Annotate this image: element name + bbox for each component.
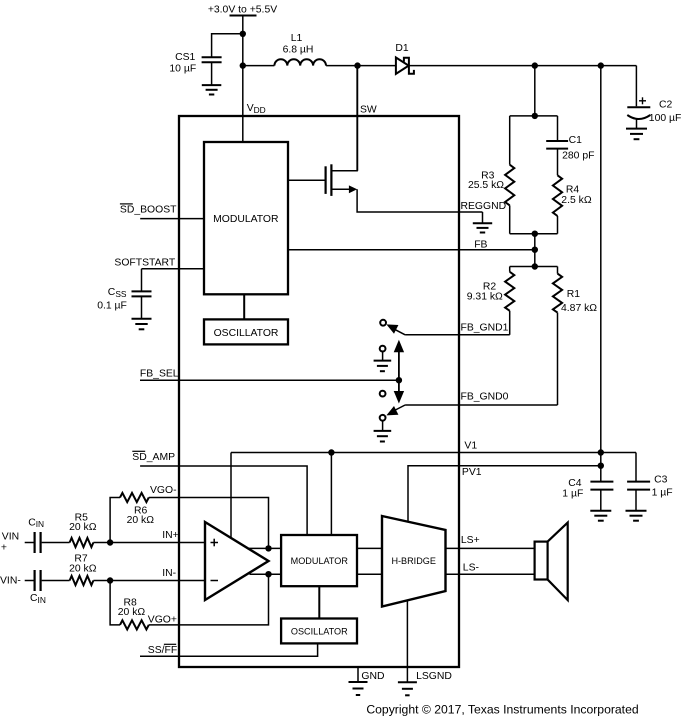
label IN- pin xyxy=(162,568,176,579)
svg-text:20 kΩ: 20 kΩ xyxy=(118,607,146,618)
wire top rail to divider xyxy=(534,66,536,116)
ground below CS1 xyxy=(202,85,222,94)
label R1 xyxy=(567,289,581,300)
wire REGGND ground stub xyxy=(482,212,484,223)
wire FB from modulator to divider xyxy=(288,249,535,251)
label SW pin xyxy=(360,104,377,115)
capacitor C4 plates xyxy=(590,482,613,490)
wire V1 to C3 xyxy=(635,453,637,482)
label R3 xyxy=(481,170,495,181)
switch lever arrow FB_GND1 xyxy=(386,324,398,333)
label VGO- xyxy=(150,485,177,496)
svg-text:20 kΩ: 20 kΩ xyxy=(127,515,155,526)
node junction IN+ xyxy=(107,539,113,545)
ground upper switch contact xyxy=(374,361,392,372)
svg-text:R1: R1 xyxy=(567,289,581,300)
svg-text:20 kΩ: 20 kΩ xyxy=(69,522,97,533)
resistor R6 xyxy=(120,493,149,502)
wire lower grounded contact stub xyxy=(382,421,384,431)
block H-BRIDGE xyxy=(382,516,446,607)
svg-text:IN+: IN+ xyxy=(162,530,178,541)
wire V1 to op-amp xyxy=(230,453,232,539)
svg-text:VGO-: VGO- xyxy=(150,485,177,496)
wire R7 to op-amp IN- xyxy=(93,580,205,582)
overline SD_BOOST xyxy=(120,203,133,205)
svg-text:MODULATOR: MODULATOR xyxy=(213,214,279,225)
power rail bar xyxy=(230,15,257,17)
wire upper grounded contact stub xyxy=(382,352,384,361)
svg-text:25.5 kΩ: 25.5 kΩ xyxy=(468,180,504,191)
svg-text:OSCILLATOR: OSCILLATOR xyxy=(214,328,279,339)
label FB xyxy=(474,240,487,251)
svg-text:LSGND: LSGND xyxy=(416,671,452,682)
wire FB_GND1 xyxy=(405,334,510,336)
wire FB_GND1 lever xyxy=(391,327,406,335)
capacitor CIN bottom plates xyxy=(35,570,41,591)
wire FB_GND0 xyxy=(405,404,557,406)
wire SOFTSTART xyxy=(142,268,205,270)
svg-text:VIN-: VIN- xyxy=(0,576,21,587)
svg-text:V1: V1 xyxy=(464,440,477,451)
wire FB_GND0 lever xyxy=(391,405,406,413)
wire VIN- lead xyxy=(25,580,34,582)
capacitor CIN top plates xyxy=(35,532,41,553)
svg-text:CIN: CIN xyxy=(30,593,46,605)
label SD_AMP xyxy=(132,452,175,463)
wire mosfet source xyxy=(331,188,350,190)
svg-text:SD_BOOST: SD_BOOST xyxy=(120,205,177,216)
wire R4 branch lower xyxy=(557,216,559,234)
node junction output plus xyxy=(265,545,271,551)
svg-text:GND: GND xyxy=(361,671,384,682)
label C3 xyxy=(654,475,668,486)
switch contact circle FB_GND0 open xyxy=(380,391,386,397)
power rail +3.0V to +5.5V label xyxy=(208,4,277,15)
svg-text:SW: SW xyxy=(360,104,377,115)
label C1 value 280 pF xyxy=(562,150,594,161)
label C2 xyxy=(659,100,673,111)
label MODULATOR boost xyxy=(213,214,279,225)
svg-text:1 µF: 1 µF xyxy=(652,488,673,499)
inductor L1 xyxy=(274,59,326,65)
wire VIN+ lead xyxy=(25,542,34,544)
ground lower switch contact xyxy=(374,431,392,442)
node junction R1 R2 top rail xyxy=(532,263,538,269)
transistor mosfet gate bar xyxy=(325,166,327,194)
wire C3 to ground xyxy=(635,490,637,511)
svg-text:L1: L1 xyxy=(291,33,303,44)
node junction at PV1 rail tap xyxy=(598,62,604,68)
wire VGO- left xyxy=(110,498,120,543)
svg-text:C1: C1 xyxy=(569,135,583,146)
wire modulator to H-bridge upper xyxy=(357,547,382,549)
label CS1 value 10 uF xyxy=(169,64,196,75)
IC boundary box xyxy=(179,116,459,667)
wire CS1 to ground xyxy=(211,62,213,85)
svg-text:CSS: CSS xyxy=(108,287,127,299)
svg-text:SS/FF: SS/FF xyxy=(148,645,177,656)
switch selector arrow up xyxy=(394,340,404,381)
wire mosfet source to REGGND xyxy=(357,189,482,212)
label FB_GND1 xyxy=(461,322,509,333)
resistor R1 xyxy=(553,274,562,313)
svg-text:LS+: LS+ xyxy=(461,535,480,546)
label R2 value 9.31 kOhm xyxy=(467,292,503,303)
label R4 xyxy=(566,185,580,196)
capacitor C3 plates xyxy=(627,482,650,490)
label CIN top xyxy=(28,517,44,529)
wire L1 to diode D1 xyxy=(326,65,396,67)
svg-text:SD_AMP: SD_AMP xyxy=(132,452,175,463)
switch contact circle grounded lower xyxy=(380,415,386,421)
label R6 xyxy=(134,505,148,516)
node junction output minus xyxy=(265,571,271,577)
node junction at R3 R4 divider tap xyxy=(532,62,538,68)
label R7 value 20 kOhm xyxy=(69,563,97,574)
resistor R3 xyxy=(505,165,514,206)
wire CIN to R5 xyxy=(42,542,70,544)
svg-text:FB_GND1: FB_GND1 xyxy=(461,322,509,333)
node junction PV1 C4 xyxy=(598,463,604,469)
label SOFTSTART xyxy=(114,257,175,268)
wire R3 branch upper xyxy=(509,116,511,165)
block OSCILLATOR amp xyxy=(281,619,357,644)
label R5 xyxy=(75,512,89,523)
block OSCILLATOR boost xyxy=(204,319,288,344)
svg-text:20 kΩ: 20 kΩ xyxy=(69,563,97,574)
wire modulator to H-bridge lower xyxy=(357,573,382,575)
wire VGO+ left xyxy=(110,581,120,625)
wire R1 stub xyxy=(557,267,559,274)
svg-text:9.31 kΩ: 9.31 kΩ xyxy=(467,292,503,303)
label CSS xyxy=(108,287,127,299)
svg-text:R4: R4 xyxy=(566,185,580,196)
wire LS+ to speaker xyxy=(446,547,535,549)
wire R2 stub xyxy=(509,267,511,272)
wire PV1 rail vertical xyxy=(600,66,602,481)
svg-text:C2: C2 xyxy=(659,100,673,111)
wire V1 xyxy=(231,452,636,454)
node junction at SW tap xyxy=(354,62,360,68)
label C2 value 100 uF xyxy=(649,113,681,124)
label SD_BOOST xyxy=(120,205,177,216)
ground below C2 xyxy=(626,129,647,140)
label L1 xyxy=(291,33,303,44)
node junction FB xyxy=(532,247,538,253)
label REGGND xyxy=(461,201,507,212)
label L1 value 6.8 uH xyxy=(283,44,314,55)
label R4 value 2.5 kOhm xyxy=(561,195,592,206)
diode D1 schottky cathode xyxy=(404,58,414,74)
wire FB_SEL xyxy=(140,379,399,381)
node junction at L1 tap xyxy=(240,62,246,68)
wire divider bottom rail xyxy=(510,233,558,235)
svg-text:1 µF: 1 µF xyxy=(562,489,583,500)
svg-text:CS1: CS1 xyxy=(175,52,195,63)
node junction V1 C4 rail xyxy=(598,449,604,455)
svg-text:CIN: CIN xyxy=(28,517,44,529)
label C4 value 1 uF xyxy=(562,489,583,500)
node junction FB_SEL xyxy=(396,377,402,383)
label SS/FF xyxy=(148,645,177,656)
wire top rail to capacitor C2 xyxy=(635,66,637,107)
label R6 value 20 kOhm xyxy=(127,515,155,526)
resistor R4 xyxy=(553,175,562,216)
wire R3 branch lower xyxy=(509,205,511,233)
capacitor C2 polarized plates xyxy=(627,107,650,119)
wire R1 R2 top rail xyxy=(510,266,558,268)
ground below C3 xyxy=(626,511,647,521)
resistor R2 xyxy=(505,272,514,311)
wire SD_BOOST xyxy=(140,218,204,220)
ground LSGND xyxy=(398,682,417,695)
wire C4 to ground xyxy=(600,490,602,511)
svg-text:6.8 µH: 6.8 µH xyxy=(283,44,314,55)
wire GND stub xyxy=(357,667,359,682)
svg-text:SOFTSTART: SOFTSTART xyxy=(114,257,175,268)
label R8 xyxy=(124,597,138,608)
label VGO+ xyxy=(148,615,177,626)
label FB_SEL xyxy=(140,369,179,380)
label IN+ pin xyxy=(162,530,178,541)
svg-text:100 µF: 100 µF xyxy=(649,113,681,124)
svg-text:Copyright © 2017, Texas Instru: Copyright © 2017, Texas Instruments Inco… xyxy=(366,702,638,716)
wire SW vertical xyxy=(357,66,359,171)
svg-text:C3: C3 xyxy=(654,475,668,486)
label C4 xyxy=(568,478,582,489)
diode D1 triangle xyxy=(396,58,409,74)
node junction at CS1 tap xyxy=(240,31,246,37)
wire D1 cathode to C2 xyxy=(409,65,637,67)
label OSCILLATOR boost xyxy=(214,328,279,339)
svg-text:C4: C4 xyxy=(568,478,582,489)
switch lever arrow FB_GND0 xyxy=(386,406,398,415)
label R7 xyxy=(74,554,88,565)
label R1 value 4.87 kOhm xyxy=(561,303,597,314)
label MODULATOR amp xyxy=(291,556,349,566)
copyright notice xyxy=(366,702,638,716)
block MODULATOR boost xyxy=(204,142,288,294)
wire op-amp output plus xyxy=(247,547,281,549)
wire modulator to mosfet gate xyxy=(288,179,326,181)
wire C2 to ground xyxy=(636,120,638,129)
wire to capacitor CS1 xyxy=(212,34,243,57)
svg-text:VGO+: VGO+ xyxy=(148,615,177,626)
svg-text:VDD: VDD xyxy=(247,103,266,115)
svg-text:0.1 µF: 0.1 µF xyxy=(97,300,127,311)
svg-text:FB_SEL: FB_SEL xyxy=(140,369,179,380)
node junction divider top rail xyxy=(532,113,538,119)
label D1 xyxy=(395,43,409,54)
ground GND xyxy=(349,682,368,695)
wire C1 to R4 xyxy=(557,149,559,176)
node junction IN- xyxy=(107,577,113,583)
wire R1 to FB_GND0 xyxy=(557,313,559,405)
overline SS/FF xyxy=(164,643,176,645)
wire SS/FF xyxy=(140,643,318,656)
svg-text:+: + xyxy=(1,543,7,554)
label OSCILLATOR amp xyxy=(291,626,348,636)
wire softstart to CSS xyxy=(141,269,143,291)
wire from VDD node to inductor L1 xyxy=(243,65,275,67)
speaker horn xyxy=(548,523,568,601)
svg-text:+3.0V to +5.5V: +3.0V to +5.5V xyxy=(208,4,277,15)
ground below C4 xyxy=(590,511,611,521)
overline SD_AMP xyxy=(132,450,145,452)
wire PV1 xyxy=(408,466,601,522)
block MODULATOR amp xyxy=(281,535,357,586)
svg-text:MODULATOR: MODULATOR xyxy=(291,556,349,566)
resistor R7 xyxy=(70,576,94,585)
wire LS- to speaker xyxy=(446,573,535,575)
svg-text:OSCILLATOR: OSCILLATOR xyxy=(291,626,348,636)
wire C1 branch upper xyxy=(557,116,559,140)
capacitor C2 plus sign xyxy=(639,97,646,104)
op-amp minus input sign xyxy=(211,580,219,582)
label LS+ pin xyxy=(461,535,480,546)
wire VGO+ right xyxy=(149,574,269,625)
wire divider top rail xyxy=(510,115,558,117)
wire V1 to modulator xyxy=(330,453,332,536)
label CSS value 0.1 uF xyxy=(97,300,127,311)
svg-text:FB_GND0: FB_GND0 xyxy=(461,392,509,403)
label C1 xyxy=(569,135,583,146)
svg-text:H-BRIDGE: H-BRIDGE xyxy=(391,556,435,566)
svg-text:VIN: VIN xyxy=(2,532,19,543)
label V1 xyxy=(464,440,477,451)
capacitor CSS plates xyxy=(132,291,152,296)
node junction V1 to modulator xyxy=(328,449,334,455)
label LSGND pin xyxy=(416,671,452,682)
op-amp plus input sign xyxy=(211,539,219,547)
capacitor CS1 plates xyxy=(202,57,222,62)
wire CIN to R7 xyxy=(42,580,70,582)
ground below CSS xyxy=(132,319,152,330)
wire modulator amp to oscillator amp xyxy=(318,586,320,618)
speaker body xyxy=(535,542,548,580)
label CIN bottom xyxy=(30,593,46,605)
resistor R8 xyxy=(120,620,149,629)
wire LSGND from H-bridge xyxy=(406,600,408,682)
label R2 xyxy=(483,282,497,293)
svg-text:REGGND: REGGND xyxy=(461,201,507,212)
svg-text:2.5 kΩ: 2.5 kΩ xyxy=(561,195,592,206)
switch contact circle FB_GND1 xyxy=(380,320,386,326)
label R3 value 25.5 kOhm xyxy=(468,180,504,191)
transistor mosfet channel bar xyxy=(330,164,332,196)
label PV1 xyxy=(462,467,482,478)
label VIN- xyxy=(0,576,21,587)
op-amp U1 xyxy=(205,522,269,600)
wire mosfet drain xyxy=(331,66,357,171)
svg-text:4.87 kΩ: 4.87 kΩ xyxy=(561,303,597,314)
label R5 value 20 kOhm xyxy=(69,522,97,533)
switch contact circle grounded upper xyxy=(380,346,386,352)
wire R5 to op-amp IN+ xyxy=(93,542,205,544)
wire divider bottom to FB xyxy=(534,234,536,267)
capacitor C1 plates xyxy=(546,141,568,149)
ground REGGND xyxy=(473,223,492,232)
label H-BRIDGE xyxy=(391,556,435,566)
label GND pin xyxy=(361,671,384,682)
switch selector arrow down xyxy=(394,380,404,403)
node junction divider bottom xyxy=(532,231,538,237)
transistor mosfet source arrow xyxy=(349,185,357,193)
svg-text:280 pF: 280 pF xyxy=(562,150,594,161)
svg-text:PV1: PV1 xyxy=(462,467,482,478)
svg-text:IN-: IN- xyxy=(162,568,176,579)
svg-text:D1: D1 xyxy=(395,43,409,54)
wire R2 to FB_GND1 xyxy=(509,311,511,335)
svg-text:10 µF: 10 µF xyxy=(169,64,196,75)
label C3 value 1 uF xyxy=(652,488,673,499)
wire SD_AMP xyxy=(140,466,307,535)
label R8 value 20 kOhm xyxy=(118,607,146,618)
resistor R5 xyxy=(70,538,94,547)
wire VGO- right xyxy=(149,498,269,549)
label VIN+ xyxy=(1,532,19,554)
label VDD pin xyxy=(247,103,266,115)
label FB_GND0 xyxy=(461,392,509,403)
label LS- pin xyxy=(463,563,479,574)
wire CSS to ground xyxy=(141,296,143,318)
svg-text:LS-: LS- xyxy=(463,563,479,574)
wire VDD vertical from rail to modulator xyxy=(242,16,244,143)
wire modulator to oscillator xyxy=(243,294,245,319)
wire op-amp output minus xyxy=(250,573,282,575)
label CS1 xyxy=(175,52,195,63)
